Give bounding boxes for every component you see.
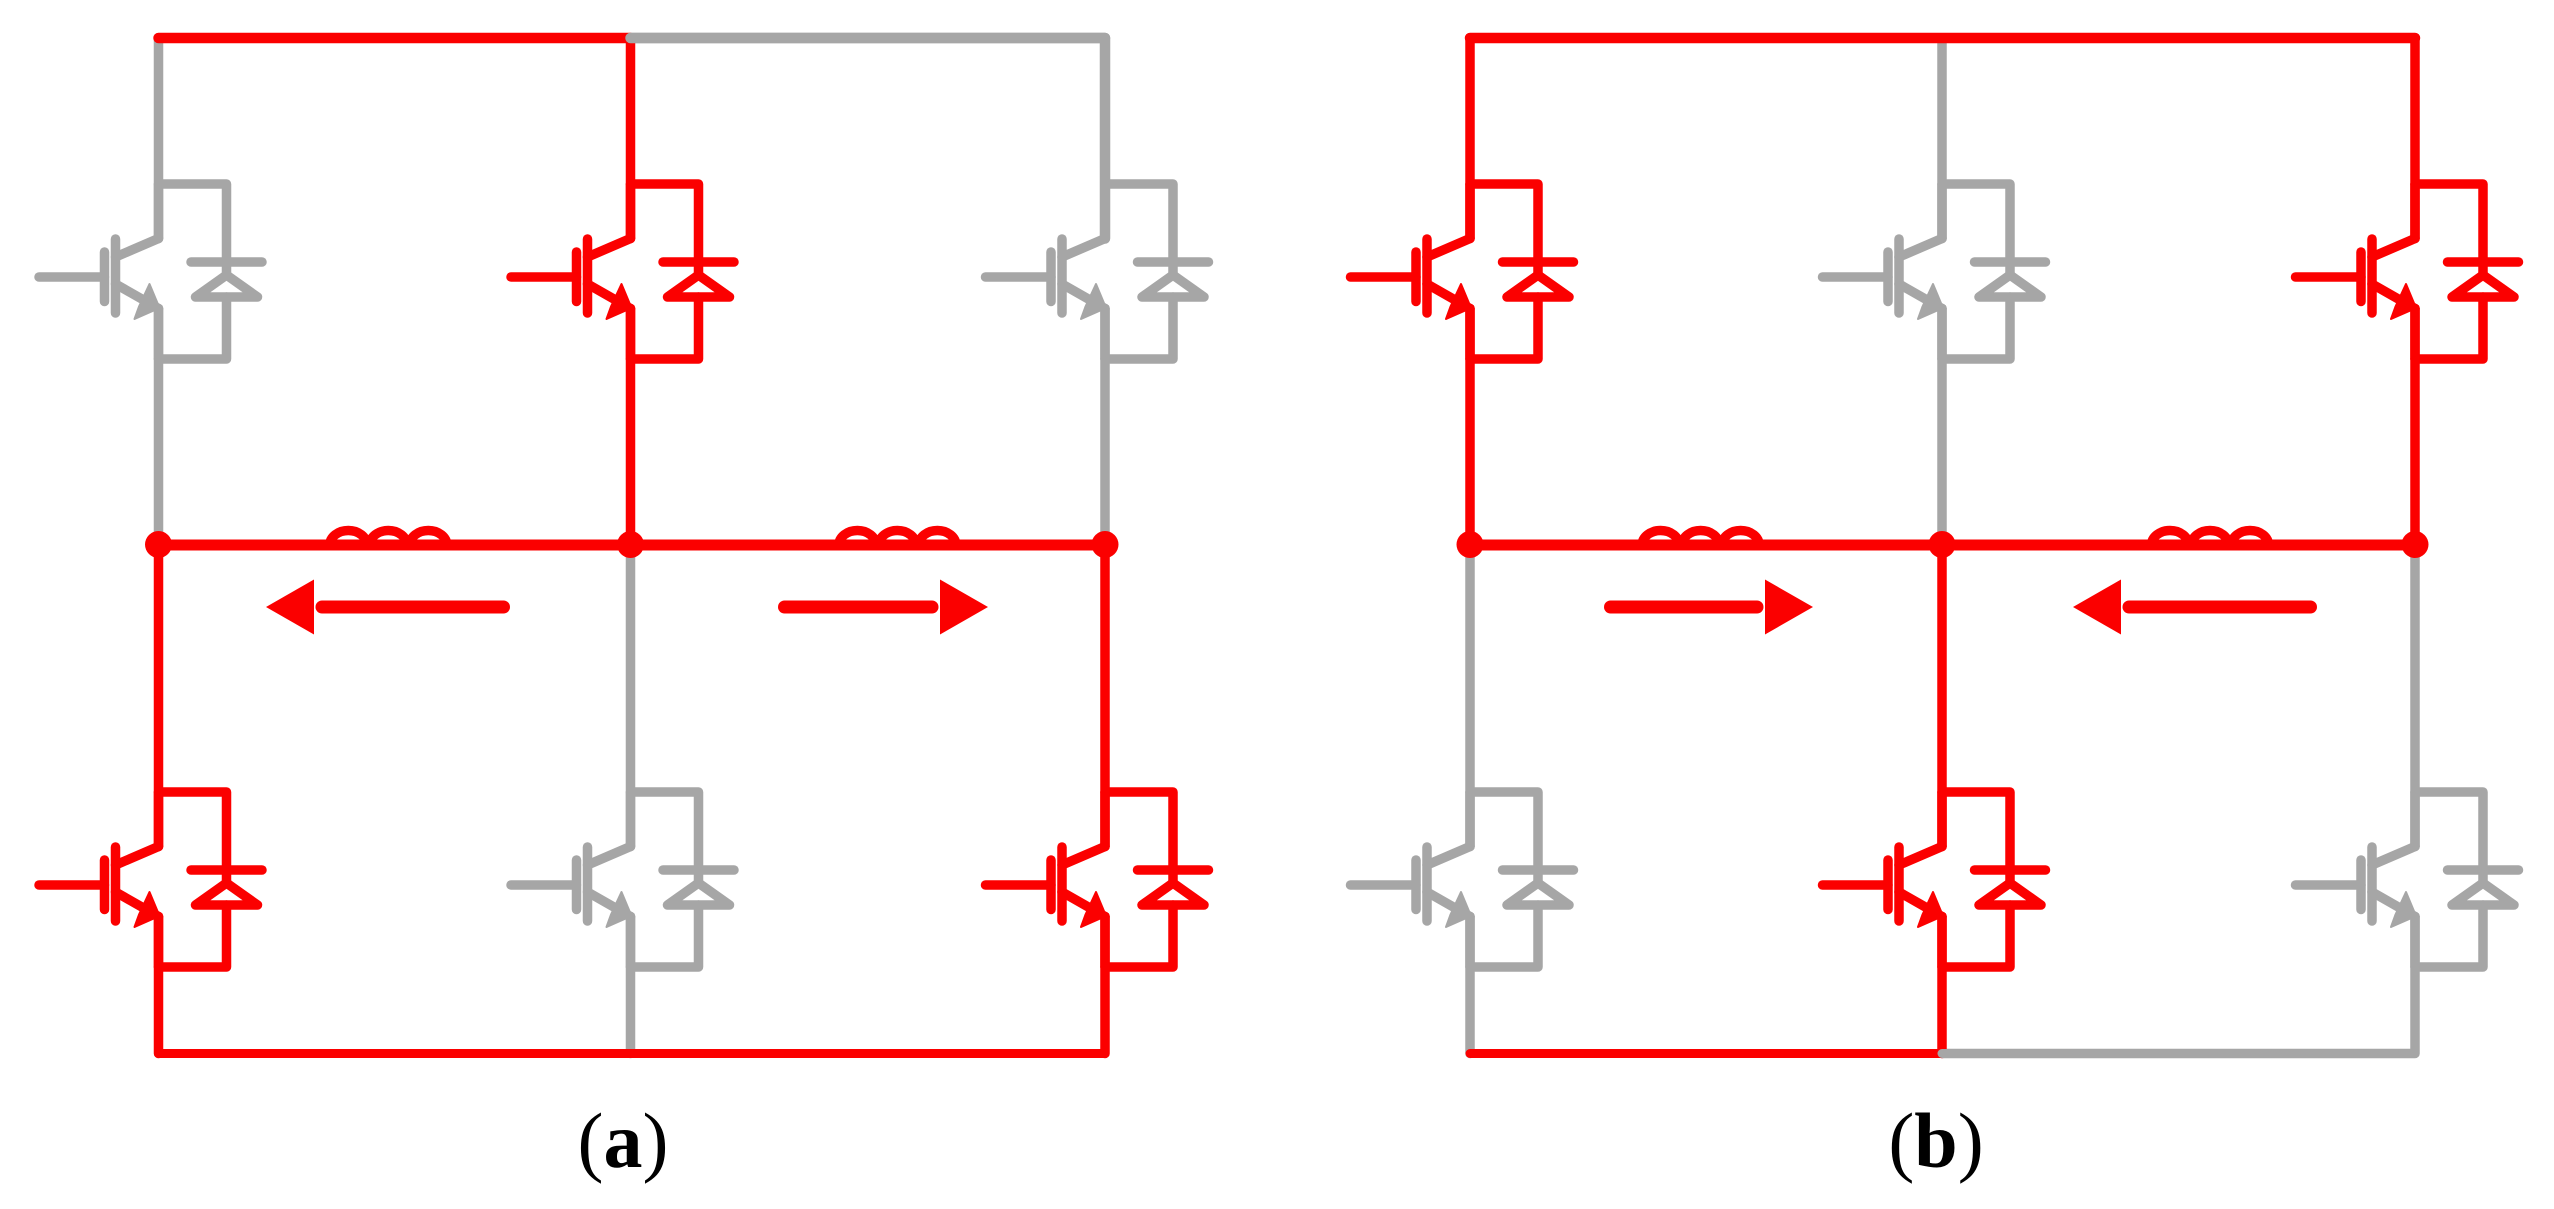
svg-text:(a): (a) — [578, 1097, 669, 1184]
svg-text:(b): (b) — [1888, 1097, 1983, 1184]
